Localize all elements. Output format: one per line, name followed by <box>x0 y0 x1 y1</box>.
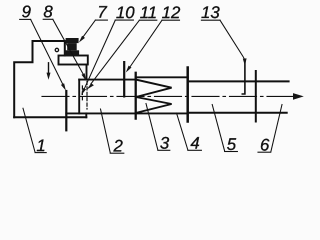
underline 13 <box>201 19 220 21</box>
spring housing top <box>136 76 188 78</box>
spring zigzag <box>136 80 172 113</box>
leader 12 <box>128 20 162 70</box>
leader 6 <box>271 105 282 153</box>
chamber bottom step <box>85 113 87 117</box>
leader 10 <box>84 20 116 90</box>
underline 6 <box>258 151 271 153</box>
underline 7 <box>95 19 107 21</box>
flange plate <box>59 56 88 65</box>
svg-text:7: 7 <box>97 3 107 22</box>
svg-text:10: 10 <box>116 3 135 22</box>
leader 8 <box>53 19 85 76</box>
leader 11 <box>91 20 140 84</box>
svg-text:8: 8 <box>43 2 53 21</box>
leader 9 <box>31 19 64 86</box>
valve stem V1 <box>123 62 125 96</box>
leader 13 <box>220 20 245 60</box>
underline 4 <box>188 149 202 151</box>
svg-text:1: 1 <box>36 136 45 155</box>
centerline arrow <box>293 93 304 100</box>
leader 1 <box>23 108 35 152</box>
svg-text:2: 2 <box>113 136 124 155</box>
body block outline <box>14 41 65 117</box>
centerline <box>42 95 296 97</box>
svg-text:13: 13 <box>201 3 220 22</box>
piston (black) <box>64 38 79 56</box>
flow arrow down <box>48 63 50 75</box>
underline 8 <box>43 18 53 20</box>
barrel partition <box>255 71 257 122</box>
svg-text:3: 3 <box>160 134 170 153</box>
vent circle <box>55 48 58 51</box>
barrel bottom <box>188 112 287 114</box>
hidden bore line a (dashed) <box>81 86 83 100</box>
underline 2 <box>110 152 124 154</box>
underline 11 <box>139 19 156 21</box>
svg-text:11: 11 <box>140 3 157 22</box>
rod <box>65 91 67 130</box>
leader 2 <box>101 109 111 153</box>
body block bottom <box>14 116 86 118</box>
underline 5 <box>225 151 238 153</box>
chamber top <box>79 79 136 81</box>
svg-text:9: 9 <box>22 2 31 21</box>
svg-text:12: 12 <box>162 3 181 22</box>
svg-text:4: 4 <box>190 134 199 153</box>
svg-text:5: 5 <box>227 135 237 154</box>
hidden bore line b (dashed) <box>86 82 88 110</box>
spring plate <box>135 73 137 119</box>
underline 9 <box>20 18 31 20</box>
underline 10 <box>115 19 133 21</box>
underline 12 <box>162 19 180 21</box>
leader 5 <box>212 105 225 152</box>
underline 1 <box>35 152 46 154</box>
chamber left wall <box>78 80 80 114</box>
leader 7 <box>82 20 96 38</box>
pin <box>242 61 245 94</box>
barrel top <box>188 80 289 82</box>
svg-text:6: 6 <box>260 135 270 154</box>
seat vertical <box>86 65 88 80</box>
underline 3 <box>158 149 170 151</box>
leader 3 <box>146 104 158 151</box>
housing wall <box>186 68 189 122</box>
chamber bottom long <box>66 112 187 114</box>
leader 4 <box>177 113 188 150</box>
